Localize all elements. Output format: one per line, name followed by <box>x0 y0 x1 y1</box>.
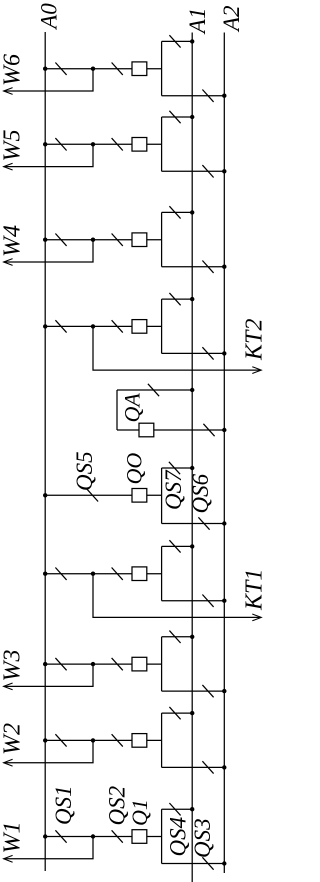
line KT1 arrow <box>252 614 261 621</box>
node QO bus A0 tap <box>43 493 47 497</box>
wire W5 main line <box>45 143 161 145</box>
node W2 on bus A1 <box>190 711 194 715</box>
wire W4 to bus A1 <box>162 211 193 213</box>
wire W4 main line <box>45 239 161 241</box>
node W6 junction <box>91 67 95 71</box>
wire KT2 to bus A2 <box>162 352 225 354</box>
node KT2 on bus A2 <box>222 351 226 355</box>
disconnector KT1 bus-side <box>55 568 66 580</box>
wire KT1 bracket <box>161 546 163 600</box>
disconnector W6 line-side <box>112 63 123 75</box>
wire W3 bracket <box>161 637 163 691</box>
wire QO bracket <box>161 468 163 524</box>
disconnector KT2 line-side <box>112 320 123 332</box>
wire feeder W6 <box>4 69 93 91</box>
feeder W4 arrow <box>4 259 13 266</box>
wire W1 bracket <box>161 809 163 863</box>
node W4 on bus A2 <box>222 265 226 269</box>
circuit breaker W4 <box>132 233 147 247</box>
svg-text:A0: A0 <box>37 3 62 31</box>
wire W3 main line <box>45 663 161 665</box>
disconnector W3 line-side <box>112 658 123 670</box>
wire W6 to bus A1 <box>162 40 193 42</box>
svg-text:A1: A1 <box>185 8 210 36</box>
svg-text:QA: QA <box>120 393 145 423</box>
svg-text:W6: W6 <box>0 54 26 86</box>
disconnector KT2 to A2 <box>202 347 213 359</box>
disconnector W3 bus-side <box>55 658 66 670</box>
node W1 junction <box>91 834 95 838</box>
disconnector W3 to A2 <box>202 685 213 697</box>
circuit breaker W2 <box>132 734 147 748</box>
disconnector W5 to A1 <box>169 111 180 123</box>
circuit breaker W5 <box>132 138 147 152</box>
svg-text:W2: W2 <box>0 723 26 755</box>
wire line KT2 <box>93 326 260 370</box>
wire KT2 to bus A1 <box>162 298 193 300</box>
wire W1 main line <box>45 836 161 838</box>
bus A0 <box>44 32 46 871</box>
wire feeder W3 <box>4 664 93 686</box>
disconnector QS7 <box>169 462 180 474</box>
wire W1 to bus A2 <box>162 863 225 865</box>
disconnector W4 bus-side <box>55 234 66 246</box>
node W3 on bus A2 <box>222 689 226 693</box>
disconnector W5 to A2 <box>202 165 213 177</box>
disconnector KT1 line-side <box>112 568 123 580</box>
circuit breaker W3 <box>132 657 147 671</box>
node W6 on bus A2 <box>222 94 226 98</box>
disconnector W2 to A1 <box>169 707 180 719</box>
node W5 on bus A2 <box>222 169 226 173</box>
disconnector W5 line-side <box>112 138 123 150</box>
node W2 bus A0 tap <box>43 738 47 742</box>
node W5 bus A0 tap <box>43 142 47 146</box>
svg-text:W3: W3 <box>0 650 26 682</box>
svg-text:QS5: QS5 <box>72 451 97 491</box>
svg-text:KT1: KT1 <box>242 569 266 611</box>
wire line KT1 <box>93 574 260 618</box>
node W3 bus A0 tap <box>43 662 47 666</box>
node KT1 junction <box>91 572 95 576</box>
svg-text:QS7: QS7 <box>161 469 186 510</box>
wire QO main line <box>45 494 161 496</box>
node QA on bus A2 <box>222 428 226 432</box>
disconnector KT2 to A1 <box>169 293 180 305</box>
circuit breaker W6 <box>132 62 147 76</box>
node KT2 on bus A1 <box>190 297 194 301</box>
wire W3 to bus A2 <box>162 690 225 692</box>
wire W6 main line <box>45 68 161 70</box>
wire W1 to bus A1 <box>162 808 193 810</box>
wire W3 to bus A1 <box>162 636 193 638</box>
wire W4 to bus A2 <box>162 266 225 268</box>
wire W5 bracket <box>161 117 163 171</box>
svg-text:QS1: QS1 <box>51 785 76 825</box>
wire W4 bracket <box>161 212 163 266</box>
node W4 junction <box>91 238 95 242</box>
svg-text:QS4: QS4 <box>166 817 191 857</box>
node KT1 bus A0 tap <box>43 572 47 576</box>
wire KT1 main line <box>45 573 161 575</box>
wire W5 to bus A2 <box>162 170 225 172</box>
disconnector QS1 <box>55 830 66 842</box>
svg-text:W4: W4 <box>0 225 26 257</box>
disconnector W4 to A2 <box>202 261 213 273</box>
svg-text:QS6: QS6 <box>188 473 213 513</box>
svg-text:QS2: QS2 <box>105 786 130 826</box>
wire QO to bus A1 <box>162 467 193 469</box>
wire KT1 to bus A2 <box>162 600 225 602</box>
circuit breaker KT1 <box>132 567 147 581</box>
bus A2 <box>223 33 225 874</box>
feeder W3 arrow <box>4 683 13 690</box>
feeder W5 arrow <box>4 163 13 170</box>
node KT1 on bus A2 <box>222 599 226 603</box>
bus A1 <box>191 33 193 882</box>
wire feeder W1 <box>4 837 93 859</box>
circuit breaker QO <box>132 489 147 503</box>
node W4 on bus A1 <box>190 210 194 214</box>
disconnector KT1 to A2 <box>202 595 213 607</box>
disconnector QS3 <box>202 857 213 869</box>
node W3 junction <box>91 662 95 666</box>
wire W2 main line <box>45 739 161 741</box>
feeder W2 arrow <box>4 759 13 766</box>
node W6 bus A0 tap <box>43 67 47 71</box>
node W5 on bus A1 <box>190 115 194 119</box>
circuit breaker KT2 <box>132 320 147 334</box>
feeder W1 arrow <box>4 855 13 862</box>
svg-text:QS3: QS3 <box>190 818 215 858</box>
wire KT2 main line <box>45 325 161 327</box>
node QO on bus A2 <box>222 521 226 525</box>
wire feeder W5 <box>4 144 93 166</box>
disconnector QS5 <box>87 489 98 501</box>
disconnector KT1 to A1 <box>169 540 180 552</box>
svg-text:W1: W1 <box>0 822 26 854</box>
node W6 on bus A1 <box>190 39 194 43</box>
svg-text:Q1: Q1 <box>127 799 152 826</box>
line KT2 arrow <box>252 367 261 374</box>
node KT1 on bus A1 <box>190 544 194 548</box>
node W4 bus A0 tap <box>43 238 47 242</box>
disconnector QA bus A2 side <box>203 424 214 436</box>
svg-text:QO: QO <box>122 453 147 485</box>
wire feeder W2 <box>4 740 93 762</box>
node QA on bus A1 <box>190 388 194 392</box>
disconnector W6 bus-side <box>55 63 66 75</box>
circuit breaker QA <box>139 423 154 437</box>
disconnector W4 line-side <box>112 234 123 246</box>
disconnector QS6 <box>198 517 209 529</box>
wire W2 to bus A2 <box>162 766 225 768</box>
wire feeder W4 <box>4 240 93 262</box>
wire QO to bus A2 <box>162 523 225 525</box>
node W1 bus A0 tap <box>43 834 47 838</box>
disconnector KT2 bus-side <box>55 320 66 332</box>
disconnector W5 bus-side <box>55 138 66 150</box>
wire W6 to bus A2 <box>162 95 225 97</box>
node QO on bus A1 <box>190 466 194 470</box>
svg-text:W5: W5 <box>0 130 26 162</box>
disconnector W6 to A1 <box>169 35 180 47</box>
node W5 junction <box>91 142 95 146</box>
feeder W6 arrow <box>4 88 13 95</box>
wire W2 bracket <box>161 713 163 767</box>
wire W6 bracket <box>161 41 163 95</box>
disconnector QS2 <box>112 830 123 842</box>
node W2 on bus A2 <box>222 765 226 769</box>
disconnector QS4 <box>169 803 180 815</box>
wire W2 to bus A1 <box>162 712 193 714</box>
wire QA link <box>116 390 118 430</box>
wire QA to bus A1 <box>117 389 192 391</box>
wire W5 to bus A1 <box>162 116 193 118</box>
disconnector W2 bus-side <box>55 734 66 746</box>
svg-text:A2: A2 <box>219 5 244 33</box>
disconnector QA bus A1 side <box>148 384 159 396</box>
disconnector W3 to A1 <box>169 631 180 643</box>
wire QA to bus A2 <box>117 429 224 431</box>
disconnector W2 line-side <box>112 734 123 746</box>
wire KT2 bracket <box>161 299 163 353</box>
wire KT1 to bus A1 <box>162 545 193 547</box>
disconnector W6 to A2 <box>202 90 213 102</box>
node KT2 bus A0 tap <box>43 324 47 328</box>
circuit breaker Q1 <box>132 830 147 844</box>
node W1 on bus A1 <box>190 807 194 811</box>
disconnector W2 to A2 <box>202 761 213 773</box>
disconnector W4 to A1 <box>169 206 180 218</box>
node W2 junction <box>91 738 95 742</box>
node W1 on bus A2 <box>222 861 226 865</box>
node KT2 junction <box>91 324 95 328</box>
node W3 on bus A1 <box>190 635 194 639</box>
svg-text:KT2: KT2 <box>242 319 266 361</box>
